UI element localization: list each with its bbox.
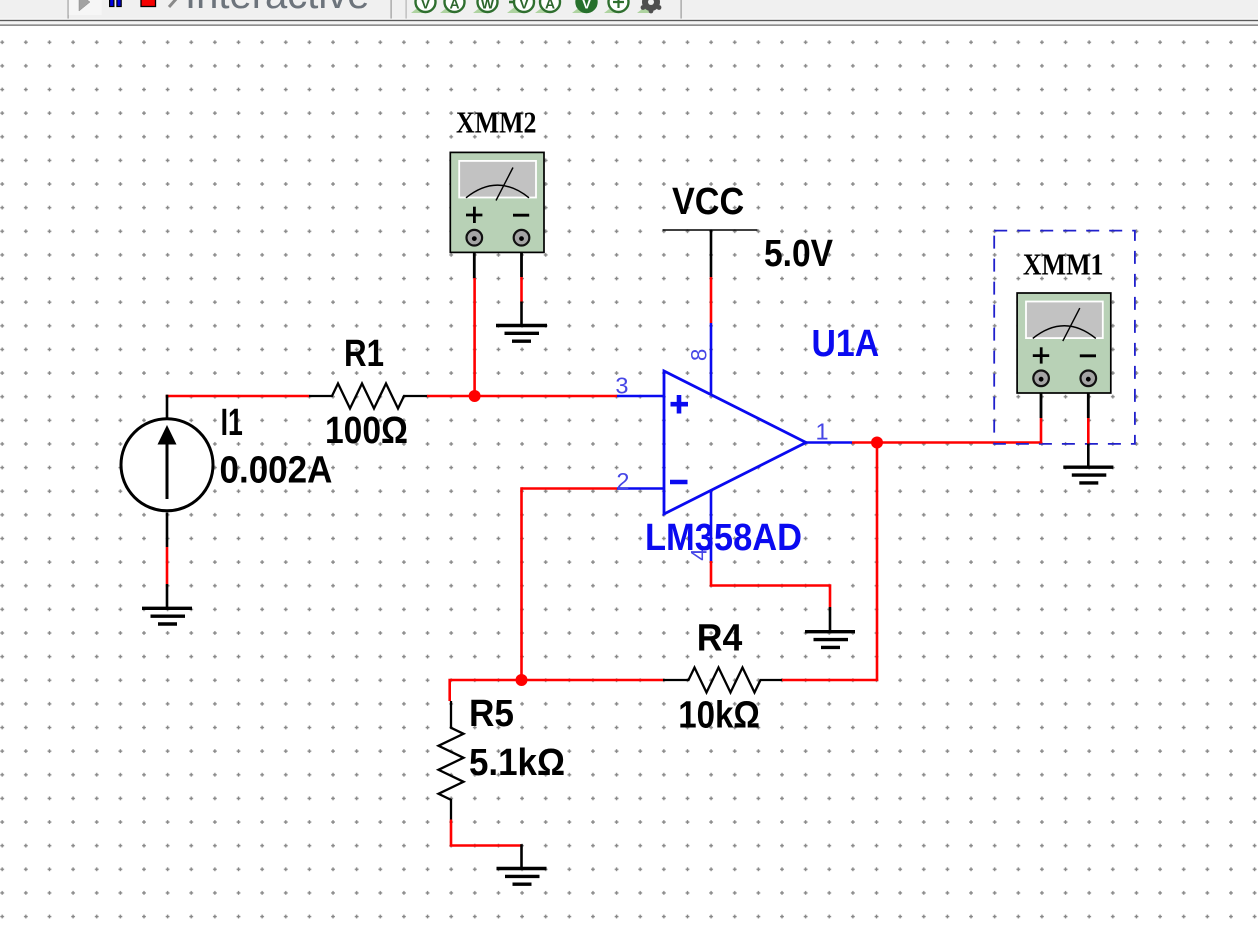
- probe icon W: [473, 0, 498, 13]
- probe icon V: [411, 0, 436, 13]
- multimeter XMM1: [1017, 293, 1111, 393]
- probe icon current clamp: [604, 0, 629, 13]
- pin 2 label: [616, 468, 629, 494]
- junction node feedback: [516, 674, 528, 686]
- value 0.002A: [220, 449, 333, 491]
- wire: I1 bottom red segment: [166, 547, 169, 584]
- pin 1 wire: [806, 441, 852, 444]
- wire: pin4 net to ground (black): [829, 607, 832, 631]
- op-amp U1A: [664, 371, 806, 514]
- pause button: [110, 0, 114, 7]
- value 5.0V: [764, 233, 834, 275]
- ground I1: [142, 608, 192, 624]
- svg-text:1: 1: [816, 419, 829, 445]
- ground U1: [805, 632, 855, 648]
- wire: XMM1 - red segment: [1087, 418, 1090, 444]
- resistor R5: [439, 701, 464, 820]
- junction node R1/XMM2: [469, 390, 481, 402]
- probe settings gear: [637, 0, 661, 13]
- toolbar bottom bevel lines: [0, 19, 1258, 20]
- pin 3 wire: [617, 395, 664, 398]
- ground XMM2: [496, 326, 547, 342]
- label R4: [697, 618, 743, 660]
- probe icon V solid: [572, 0, 597, 13]
- label XMM2: [456, 105, 537, 140]
- multimeter XMM2: [450, 152, 544, 252]
- current source I1: [121, 419, 213, 511]
- svg-text:R4: R4: [697, 618, 743, 660]
- probe icon A: [440, 0, 465, 13]
- wire: R5 bottom (red): [451, 820, 522, 846]
- wire: pin2 to feedback node (red): [522, 487, 618, 490]
- svg-text:XMM1: XMM1: [1023, 247, 1104, 282]
- svg-text:A: A: [449, 0, 459, 12]
- wire: VCC red segment: [710, 277, 713, 323]
- svg-text:Interactive: Interactive: [185, 0, 370, 17]
- wire: junction to R5 (red): [450, 680, 522, 701]
- separator: [68, 0, 69, 19]
- svg-text:V: V: [519, 0, 529, 12]
- pin 2 wire: [617, 487, 664, 490]
- wrench icon: [169, 0, 177, 7]
- svg-text:8: 8: [687, 349, 712, 362]
- resistor R4: [663, 668, 782, 693]
- label U1A: [812, 323, 880, 365]
- ground XMM1: [1063, 467, 1113, 483]
- wire: output down to R4 (red): [782, 443, 878, 681]
- combobox border: [391, 0, 392, 19]
- wire: pin1 output (red): [852, 441, 1041, 444]
- svg-text:LM358AD: LM358AD: [645, 517, 802, 559]
- wire: I1 bottom (black): [166, 513, 169, 548]
- svg-text:U1A: U1A: [812, 323, 880, 365]
- svg-text:VCC: VCC: [672, 181, 744, 223]
- pin 4 wire: [710, 491, 713, 562]
- value 100Ω: [325, 410, 408, 452]
- svg-text:3: 3: [615, 373, 628, 399]
- value 10kΩ: [678, 695, 760, 737]
- svg-text:5.1kΩ: 5.1kΩ: [469, 742, 565, 784]
- wire: pin4 net (red): [711, 561, 830, 607]
- wire: XMM1 - to ground (black): [1087, 444, 1090, 467]
- svg-text:R5: R5: [469, 693, 514, 735]
- wire: I1 to ground (black): [166, 584, 169, 607]
- selection box XMM1 (dashed): [994, 231, 1135, 444]
- wire: XMM2 - to ground (black): [520, 302, 523, 326]
- svg-text:V: V: [421, 0, 431, 12]
- wire: R1 to op-amp pin3 (red): [427, 395, 617, 398]
- toolbar background: [0, 0, 1258, 19]
- wire: XMM2 - terminal stub (black): [520, 238, 523, 277]
- pin 3 label: [615, 373, 628, 399]
- svg-text:A: A: [545, 0, 555, 12]
- svg-text:5.0V: 5.0V: [764, 233, 834, 275]
- label XMM1: [1023, 247, 1104, 282]
- svg-text:XMM2: XMM2: [456, 105, 537, 140]
- power VCC: [663, 230, 758, 277]
- probe icon -V: [507, 0, 534, 13]
- pin 1 label: [816, 419, 829, 445]
- junction node output: [871, 437, 883, 449]
- probe toolbar group: [411, 0, 661, 13]
- wire: XMM2 + terminal stub (black): [473, 238, 476, 278]
- label LM358AD: [645, 517, 802, 559]
- ground R5: [497, 869, 547, 885]
- svg-text:2: 2: [616, 468, 629, 494]
- wire: feedback vertical (red): [520, 487, 523, 680]
- value 5.1kΩ: [469, 742, 565, 784]
- pin 8 wire: [710, 323, 713, 395]
- wire: junction to R4 (red): [522, 679, 664, 682]
- wire: output to XMM1 + (red over dash): [1040, 418, 1043, 444]
- svg-text:W: W: [481, 0, 495, 12]
- svg-text:10kΩ: 10kΩ: [678, 695, 760, 737]
- wire: XMM1 - terminal stub (black): [1087, 378, 1090, 418]
- wire: I1 top stub (black): [166, 395, 169, 418]
- wire: junction up to XMM2 + (red): [473, 278, 476, 396]
- svg-text:I1: I1: [221, 402, 243, 444]
- wire: XMM2 - red segment: [520, 277, 523, 302]
- wire: R5 to ground (black): [520, 844, 523, 868]
- svg-text:100Ω: 100Ω: [325, 410, 408, 452]
- label R5: [469, 693, 514, 735]
- pin 8 label: [687, 349, 712, 362]
- label R1: [344, 333, 384, 375]
- play button: [69, 0, 102, 15]
- label VCC: [672, 181, 744, 223]
- svg-text:R1: R1: [344, 333, 384, 375]
- probe icon A ref: [535, 0, 560, 13]
- TOOLBAR: [0, 0, 1258, 26]
- label I1: [221, 402, 243, 444]
- wire: I1 top to R1 (red): [166, 395, 309, 398]
- pin 4 label: [687, 548, 712, 561]
- svg-text:V: V: [582, 0, 592, 12]
- wire: XMM1 + terminal stub (black): [1040, 378, 1043, 418]
- stop button: [141, 0, 156, 7]
- svg-text:0.002A: 0.002A: [220, 449, 333, 491]
- resistor R1: [309, 384, 427, 409]
